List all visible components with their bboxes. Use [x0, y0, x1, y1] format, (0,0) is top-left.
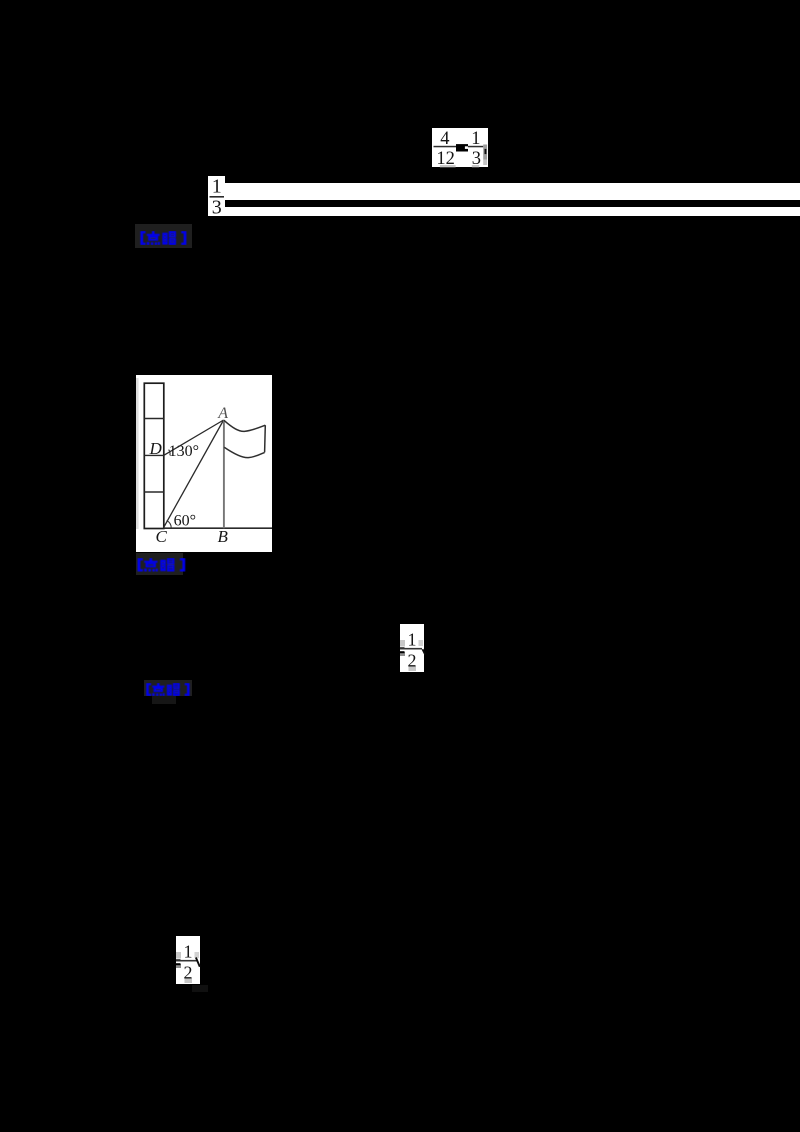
equals notches	[398, 647, 405, 649]
svg-text:60°: 60°	[174, 512, 196, 529]
svg-text:3: 3	[212, 196, 222, 216]
line A-B (flag pole, gray)	[223, 420, 225, 528]
flag bottom curve	[224, 447, 264, 457]
svg-text:B: B	[218, 527, 229, 546]
white redaction bar 1	[224, 183, 800, 200]
blue label 1	[135, 224, 192, 248]
angle sliver	[423, 649, 426, 654]
svg-text:1: 1	[184, 942, 193, 962]
line A-C	[164, 420, 224, 528]
gray strip + comma	[483, 145, 487, 160]
gray remnants	[400, 640, 405, 647]
svg-text:1: 1	[212, 176, 222, 198]
svg-text:130°: 130°	[169, 443, 199, 460]
fraction = 1/2 angle box (bottom)	[174, 936, 203, 985]
geometry figure	[136, 375, 272, 552]
shared defs: blue bracket-label glyph blob (imitates blurred CJK)	[0, 0, 1, 1]
arc at C	[167, 521, 172, 528]
pole divisions	[144, 418, 164, 420]
flag right edge	[264, 425, 267, 452]
equals blob	[456, 144, 468, 151]
faint left strip	[136, 378, 139, 529]
svg-text:2: 2	[184, 963, 193, 983]
blue label 2	[136, 553, 183, 575]
svg-text:D: D	[149, 439, 163, 458]
fraction = 1/2 angle box (middle)	[398, 624, 427, 673]
svg-text:1: 1	[408, 630, 417, 650]
white redaction bar 2	[224, 207, 800, 216]
pole rectangle	[144, 383, 164, 528]
fraction 4/12 = 1/3 white box	[431, 127, 489, 169]
line A-D	[164, 420, 224, 455]
blue label 3	[144, 680, 192, 696]
svg-text:C: C	[156, 527, 168, 546]
fraction 1/3 white box (larger)	[208, 176, 225, 216]
svg-text:A: A	[217, 405, 228, 422]
arc at D	[169, 450, 170, 456]
ground line	[164, 527, 273, 529]
svg-text:2: 2	[408, 651, 417, 671]
flag top curve	[224, 420, 265, 431]
